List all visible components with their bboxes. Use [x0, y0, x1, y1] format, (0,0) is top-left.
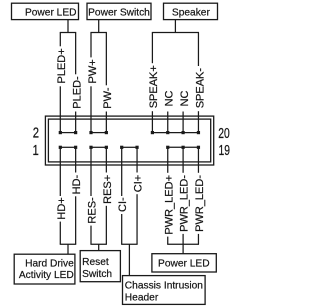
bracket HD pair (bottom): [60, 243, 76, 245]
top row pair connector line PW: [91, 132, 106, 134]
wire SPEAK- upper: [197, 33, 199, 67]
svg-text:PW-: PW-: [102, 87, 114, 109]
wire RES+ upper (from pin 7): [105, 147, 107, 172]
pin 19: [197, 146, 200, 149]
box Power LED (bottom): [152, 254, 216, 272]
svg-text:PW+: PW+: [87, 59, 99, 83]
bottom row pair connector line CI: [122, 146, 137, 148]
pin 18: [182, 131, 185, 134]
pin 5: [89, 146, 92, 149]
wire NC pin 18 lower: [182, 112, 184, 133]
box Power LED (top): [12, 3, 79, 19]
svg-text:PWR_LED-: PWR_LED-: [179, 175, 191, 232]
wire PWR_LED- pin 17 lower: [182, 234, 184, 244]
wire PWR_LED+ upper (from pin 15): [167, 147, 169, 173]
wire SPEAK- lower (to pin 20): [197, 111, 199, 132]
wire RES+ lower: [105, 206, 107, 245]
svg-text:HD-: HD-: [71, 174, 83, 194]
wire stub to Hard Drive Activity LED box: [67, 244, 69, 254]
wire stub Speaker box to bracket: [174, 20, 176, 33]
wire PWR_LED- pin 19 lower: [197, 234, 199, 244]
svg-text:Power Switch: Power Switch: [88, 7, 150, 18]
pin 6: [89, 131, 92, 134]
pin 20: [197, 131, 200, 134]
svg-text:PWR_LED-: PWR_LED-: [194, 175, 206, 232]
pin 8: [105, 131, 108, 134]
connector inner rectangle: [48, 119, 210, 162]
wire SPEAK+ lower (to pin 14): [151, 111, 153, 132]
svg-text:PLED-: PLED-: [71, 76, 83, 109]
wire PW- upper: [105, 33, 107, 86]
pin 2: [59, 131, 62, 134]
bottom row pair connector line HD: [60, 146, 75, 148]
bracket CI pair (bottom): [121, 243, 137, 245]
wire PLED- upper: [75, 33, 77, 75]
svg-text:CI+: CI+: [133, 175, 145, 192]
wire HD+ lower: [59, 222, 61, 245]
svg-text:Chassis Intrusion: Chassis Intrusion: [125, 280, 203, 291]
wire stub Power Switch box to bracket: [98, 20, 100, 33]
bracket PLED pair: [60, 32, 76, 34]
svg-text:Power LED: Power LED: [158, 259, 210, 270]
box Chassis Intrusion Header: [123, 276, 206, 305]
pin 16: [166, 131, 169, 134]
connector outer rectangle: [45, 116, 213, 165]
wire HD- upper (from pin 3): [75, 147, 77, 172]
svg-text:Activity LED: Activity LED: [19, 270, 74, 281]
bracket PWR_LED group (bottom): [167, 243, 199, 245]
svg-text:SPEAK-: SPEAK-: [194, 68, 206, 109]
wire CI- upper (from pin 9): [121, 147, 123, 196]
svg-text:NC: NC: [179, 90, 191, 106]
box Speaker (top): [164, 3, 218, 19]
wire RES- lower: [90, 226, 92, 245]
svg-text:CI-: CI-: [117, 197, 129, 212]
wire stub Power LED box to bracket: [67, 20, 69, 33]
wire NC pin 16 lower: [167, 112, 169, 133]
pin 9: [120, 146, 123, 149]
wire CI+ upper (from pin 11): [136, 147, 138, 172]
svg-text:Hard Drive: Hard Drive: [25, 258, 74, 269]
pin 14: [151, 131, 154, 134]
wire PWR_LED+ lower: [167, 237, 169, 245]
bracket PW pair: [90, 32, 106, 34]
wire HD- lower: [75, 196, 77, 244]
svg-text:Speaker: Speaker: [172, 7, 211, 18]
svg-text:Header: Header: [125, 292, 159, 303]
pin 11: [135, 146, 138, 149]
bottom row group connector line PWR_LED: [168, 146, 199, 148]
pin 4: [74, 131, 77, 134]
wire CI+ lower: [136, 194, 138, 244]
wire PLED+ lower (to pin 2): [59, 86, 61, 132]
wire PW+ lower (to pin 6): [90, 86, 92, 132]
bracket SPEAK pair: [152, 32, 199, 34]
wire PWR_LED- pin 17 upper: [182, 147, 184, 173]
wire HD+ upper (from pin 1): [59, 147, 61, 196]
wire PW+ upper: [90, 33, 92, 58]
wire RES- upper (from pin 5): [90, 147, 92, 196]
svg-text:2: 2: [33, 125, 39, 141]
wire stub to Reset Switch box: [98, 244, 100, 251]
svg-text:Reset: Reset: [82, 257, 109, 268]
wire PLED- lower (to pin 4): [75, 112, 77, 133]
wire PLED+ upper: [59, 33, 61, 47]
wire stub to Chassis Intrusion Header box: [128, 244, 130, 276]
svg-text:SPEAK+: SPEAK+: [148, 65, 160, 108]
pin 3: [74, 146, 77, 149]
svg-text:RES-: RES-: [87, 197, 99, 224]
pin 15: [166, 146, 169, 149]
box Reset Switch: [80, 251, 120, 282]
wire PW- lower (to pin 8): [105, 112, 107, 133]
svg-text:NC: NC: [164, 90, 176, 106]
pin 17: [182, 146, 185, 149]
svg-text:PWR_LED+: PWR_LED+: [163, 175, 175, 235]
wire stub to Power LED box (bottom): [182, 244, 184, 254]
svg-text:PLED+: PLED+: [56, 48, 68, 83]
bottom row pair connector line RES: [91, 146, 106, 148]
svg-text:20: 20: [218, 126, 230, 142]
wire SPEAK+ upper: [151, 33, 153, 64]
wire CI- lower: [121, 214, 123, 244]
svg-text:Power LED: Power LED: [25, 7, 77, 18]
svg-text:1: 1: [32, 143, 38, 159]
pin 1: [59, 146, 62, 149]
top row pair connector line PLED: [60, 132, 75, 134]
svg-text:HD+: HD+: [56, 197, 68, 219]
svg-text:RES+: RES+: [102, 175, 114, 204]
bracket RES pair (bottom): [90, 243, 106, 245]
box Power Switch (top): [87, 3, 151, 19]
top row group connector line SPEAK/NC: [152, 132, 198, 134]
pin 7: [105, 146, 108, 149]
box Hard Drive Activity LED: [14, 254, 75, 284]
svg-text:19: 19: [219, 143, 231, 159]
svg-text:Switch: Switch: [82, 269, 112, 280]
wire PWR_LED- pin 19 upper: [197, 147, 199, 173]
